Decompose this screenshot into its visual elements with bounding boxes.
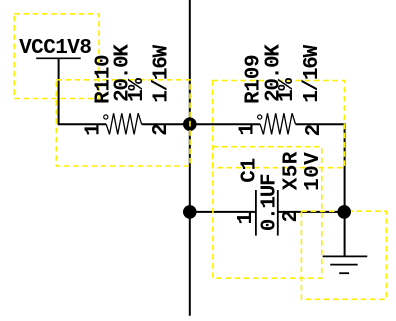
junction node dot 3: [337, 205, 351, 219]
svg-text:0.1UF: 0.1UF: [258, 174, 281, 231]
svg-text:1/16W: 1/16W: [150, 44, 173, 102]
svg-text:1: 1: [82, 124, 105, 136]
ground: [323, 212, 368, 273]
wire R110 pin 2 to R109 pin 1 through node: [142, 123, 261, 125]
svg-text:1: 1: [237, 124, 260, 136]
wire R109 pin 2 down to node: [296, 124, 345, 212]
svg-text:2: 2: [280, 211, 303, 223]
svg-text:2: 2: [303, 124, 326, 136]
wire C1 pin 2 to ground node: [278, 211, 345, 213]
svg-text:1/16W: 1/16W: [301, 44, 324, 102]
selection box R109: [213, 81, 345, 168]
selection box VCC1V8: [14, 14, 99, 99]
resistor R110: [104, 113, 142, 134]
resistor R109: [258, 113, 296, 134]
svg-text:X5R: X5R: [280, 151, 303, 190]
selection box ground: [301, 211, 386, 299]
svg-text:1: 1: [235, 213, 258, 225]
svg-text:1%: 1%: [276, 78, 299, 102]
wire node to C1 pin 1: [190, 211, 256, 213]
junction node dot 2: [183, 205, 197, 219]
wire: main vertical net: [189, 0, 191, 316]
selection box C1: [213, 147, 322, 279]
wire VCC1V8 to R110 pin 1: [59, 58, 107, 124]
capacitor C1 plates: [256, 190, 278, 236]
junction node dot 1: [183, 117, 197, 131]
svg-text:VCC1V8: VCC1V8: [19, 37, 91, 60]
svg-text:10V: 10V: [302, 152, 325, 191]
svg-text:1%: 1%: [126, 78, 149, 102]
svg-text:2: 2: [150, 124, 173, 136]
selection box R110: [56, 80, 190, 166]
power symbol VCC1V8 bar: [36, 57, 80, 59]
